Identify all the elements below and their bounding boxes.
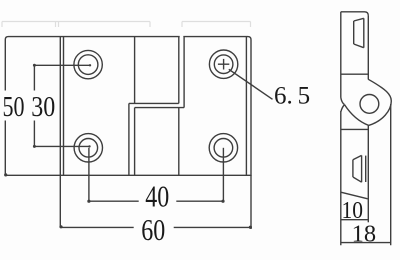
side top edge with rounded right corner	[341, 12, 369, 16]
seam vertical x=134.6 lower	[134, 108, 136, 176]
seam horizontal h2	[135, 107, 185, 109]
dim 30 bottom leader	[34, 145, 89, 147]
side top countersink mouth	[363, 18, 365, 47]
dim 60 extension right	[250, 175, 252, 229]
dim 40 extension left	[88, 148, 90, 201]
knuckle cusp back edge	[341, 105, 345, 112]
svg-text:40: 40	[145, 179, 169, 213]
side top countersink hole edge	[353, 21, 355, 44]
hole BR inner	[214, 139, 233, 158]
knuckle left face curl to cusp	[341, 98, 345, 105]
knuckle barrel right outline	[368, 79, 391, 125]
left bend line B	[63, 37, 65, 176]
faint ghost remnant line top	[2, 22, 251, 28]
svg-text:30: 30	[31, 91, 55, 123]
side top countersink slant upper	[354, 18, 364, 21]
hole TL outer	[74, 50, 102, 78]
hinge plate outline (front view)	[5, 37, 251, 176]
svg-text:5: 5	[298, 82, 311, 109]
dim 60 extension left	[59, 175, 61, 227]
dim 18 right extension	[390, 104, 392, 245]
pin hole circle	[360, 95, 379, 114]
side bottom leaf right face	[367, 125, 369, 222]
hole TR cross horizontal	[218, 63, 229, 65]
hole BL inner	[79, 139, 98, 158]
top edge seam break	[180, 36, 184, 38]
side bottom countersink slant lower	[353, 177, 362, 182]
dim 30 bracket vertical lower	[33, 121, 35, 147]
knuckle outer wrap curve cusp to barrel bottom	[345, 105, 369, 126]
side bottom leaf left face	[340, 111, 342, 245]
dim 60 line left part	[60, 226, 133, 228]
dim 30 bracket vertical upper	[33, 65, 35, 90]
seam vertical x=184.1	[183, 37, 185, 108]
dim 10 line	[341, 219, 369, 221]
svg-text:18: 18	[352, 220, 377, 247]
side bottom countersink extra bore line	[365, 156, 367, 182]
seam vertical x=178.8 upper	[178, 37, 180, 104]
dim 40 extension right	[222, 148, 224, 201]
side bottom countersink mouth	[361, 155, 363, 182]
side top countersink slant lower	[354, 44, 364, 48]
side bottom countersink hole edge	[352, 160, 354, 177]
dim 40 line left part	[89, 200, 139, 202]
corner dots	[4, 64, 252, 229]
dim 60 line right part	[174, 226, 251, 228]
dim 18 line	[341, 242, 391, 244]
hole TL inner	[78, 55, 98, 75]
text masks	[1, 91, 176, 242]
left bend line A	[59, 37, 61, 176]
side bottom countersink slant upper	[353, 155, 362, 159]
leader 6.5	[229, 69, 273, 99]
side top leaf right face	[367, 16, 369, 80]
inner right edge line	[245, 37, 247, 176]
hole BR outer	[209, 134, 237, 162]
dim 30 top leader	[34, 64, 90, 66]
hole BL outer	[74, 134, 102, 162]
seam vertical x=134.6 upper	[134, 37, 136, 104]
dim 40 line right part	[176, 200, 223, 202]
svg-text:50: 50	[3, 91, 25, 123]
side bottom leaf top edge	[341, 128, 369, 130]
hole TR outer	[209, 50, 237, 78]
seam vertical x=178.8 lower	[178, 108, 180, 176]
seam vertical x=128.9	[128, 103, 130, 175]
seam horizontal h1	[129, 102, 179, 104]
dim 50 left line gap mask (plate left edge broken by text)	[4, 91, 6, 121]
svg-text:60: 60	[141, 213, 165, 247]
side bottom diagonal cut	[341, 192, 368, 199]
svg-text:6.: 6.	[274, 82, 293, 109]
hole TR inner	[214, 55, 233, 74]
side top leaf bottom separator	[341, 73, 369, 75]
side top leaf left face	[340, 12, 342, 98]
hole TR cross vertical	[223, 59, 225, 70]
